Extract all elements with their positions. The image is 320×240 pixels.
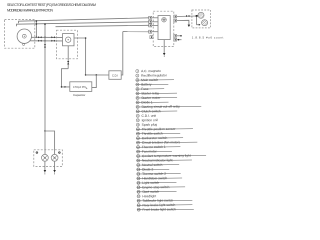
lamp L1 bbox=[42, 154, 49, 161]
magneto output wire M2 bbox=[30, 40, 62, 42]
wire V1 vertical link W1 to magneto output bbox=[36, 20, 38, 38]
legend item 14: Throttle position sensor (crossed out) bbox=[136, 127, 193, 132]
lamp L2 bbox=[51, 154, 58, 161]
ignition coil secondary winding bbox=[202, 20, 208, 26]
legend item 27: Engine stop switch (crossed out) bbox=[137, 185, 185, 190]
headlight body bbox=[158, 16, 170, 40]
pin 8 terminal lower right bbox=[174, 34, 182, 37]
legend item 32: Front brake light switch (crossed out) bbox=[137, 207, 194, 212]
svg-text:1.8.8.5 #o6 count: 1.8.8.5 #o6 count bbox=[192, 36, 224, 40]
legend item 9: Starting circuit cut-off relay (crossed out) bbox=[136, 104, 201, 109]
legend item 2: Rectifier/regulator bbox=[136, 73, 168, 77]
headlight bulb symbol bbox=[162, 17, 167, 22]
legend item 8: Diode 1 (crossed out) bbox=[136, 100, 169, 104]
wire headlight pin6 to ignition coil bbox=[177, 15, 197, 17]
rectifier/regulator U2 dashed enclosure bbox=[57, 30, 78, 59]
legend item 12: Ignition coil bbox=[136, 118, 158, 122]
wire W2 (magneto to CDI pin 2) bbox=[17, 22, 149, 26]
pin 7 terminal right second bbox=[174, 19, 177, 22]
connector pair on regulator bottom wire bbox=[67, 61, 69, 64]
A.C. magneto generator coil symbol bbox=[17, 29, 31, 43]
legend item 4: Battery (crossed out) bbox=[136, 82, 169, 86]
parts legend list bbox=[135, 68, 206, 211]
svg-text:MODIFIED from WRANGLER TRACTIO: MODIFIED from WRANGLER TRACTION bbox=[7, 8, 54, 12]
mounting pin right bbox=[58, 151, 60, 153]
wire capacitor positive branch bbox=[90, 75, 96, 88]
legend item 15: Throttle switch (crossed out) bbox=[136, 131, 180, 135]
A.C. magneto U1 dashed enclosure bbox=[5, 20, 35, 49]
connector pair on wire V2 bbox=[44, 44, 46, 47]
legend item 31: Rear brake light switch (crossed out) bbox=[137, 203, 193, 208]
legend item 1: A.C. magneto bbox=[136, 69, 161, 73]
legend item 13: Spark plug bbox=[136, 123, 157, 127]
legend item 26: Light switch (crossed out) bbox=[137, 181, 177, 185]
coil input junction node bbox=[196, 15, 198, 17]
pin 4 terminal bbox=[149, 30, 158, 33]
legend item 23: Diode 2 (crossed out) bbox=[136, 167, 169, 171]
pin 9 terminal lower right second bbox=[174, 38, 182, 41]
wire W1 (magneto to CDI pin 1) bbox=[19, 18, 149, 23]
svg-text:4700µF 35V: 4700µF 35V bbox=[73, 86, 86, 89]
wire to capacitor negative side bbox=[61, 69, 70, 88]
connector pair on M1 bbox=[38, 36, 55, 38]
headlight/meter lamp unit dashed enclosure bbox=[34, 150, 63, 167]
legend item 25: Handlebar switch (crossed out) bbox=[137, 176, 183, 180]
pin 1 terminal bbox=[149, 16, 158, 19]
legend item 29: Headlight bbox=[137, 194, 156, 198]
wire node to C.D.I. unit box bbox=[86, 74, 109, 76]
ignition coil T1 dashed enclosure bbox=[192, 10, 211, 28]
wire W4 (CDI box to pin 4) bbox=[123, 31, 149, 33]
rectifier/regulator body bbox=[63, 34, 75, 46]
legend item 22: Neutral switch (crossed out) bbox=[136, 163, 179, 167]
spark plug lead and gap bbox=[197, 17, 201, 26]
legend item 5: Fuse (crossed out) bbox=[136, 87, 165, 91]
legend item 11: C.D.I. unit bbox=[136, 114, 156, 118]
legend item 10: Clutch switch (crossed out) bbox=[136, 109, 177, 113]
pin 2 terminal bbox=[149, 20, 158, 23]
legend item 19: Fan motor (crossed out) bbox=[136, 149, 172, 153]
legend item 21: Neutral indicator light (crossed out) bbox=[136, 158, 192, 163]
headlight ground wire with arrow bbox=[163, 40, 166, 57]
wire CDI box to W4 riser bbox=[121, 32, 123, 75]
capacitor C1 body bbox=[70, 82, 92, 92]
svg-text:SELECTOR-LIGHTEST REST (PC) EM: SELECTOR-LIGHTEST REST (PC) EM GREIGE/SC… bbox=[7, 3, 96, 7]
pin 6 terminal right top bbox=[174, 15, 177, 18]
legend item 6: Starter relay (crossed out) bbox=[136, 91, 177, 95]
legend item 3: Main switch (crossed out) bbox=[136, 78, 174, 82]
ignition coil primary winding bbox=[198, 12, 204, 18]
wire from regulator right to CDI feed node bbox=[74, 37, 86, 75]
mounting pin left bbox=[36, 151, 38, 153]
legend item 17: Circuit breaker (fan motor) (crossed out) bbox=[136, 140, 197, 145]
lamp ground wire right with arrow bbox=[53, 161, 56, 174]
lamp ground wire left with arrow bbox=[44, 161, 47, 174]
legend item 28: Start switch (crossed out) bbox=[137, 189, 177, 193]
svg-text:+: + bbox=[86, 87, 88, 91]
legend item 16: Carburetor switch (crossed out) bbox=[136, 136, 183, 140]
lamp feed wire branch bbox=[45, 131, 55, 154]
wire regulator bottom output bbox=[67, 46, 69, 69]
magneto output wire M1 bbox=[31, 36, 62, 38]
C.D.I. unit U3 box bbox=[109, 71, 121, 80]
headlight U4 dashed enclosure bbox=[153, 11, 174, 46]
wire W3 (regulator to CDI pin 3) bbox=[56, 25, 149, 26]
legend item 20: Coolant temperature warning light (crossed out) bbox=[136, 153, 206, 158]
connector pair on M2 bbox=[38, 40, 55, 42]
svg-text:Capacitor: Capacitor bbox=[73, 93, 85, 97]
lamp feed wire left bbox=[44, 131, 46, 154]
legend item 7: Starter motor (crossed out) bbox=[136, 96, 177, 100]
svg-text:C.D.I: C.D.I bbox=[112, 73, 118, 77]
pin 5 terminal lower left bbox=[150, 36, 153, 39]
label 1 marker under magneto bbox=[23, 43, 25, 45]
pin 3 terminal bbox=[149, 24, 158, 27]
legend item 18: Thermo switch 1 (crossed out) bbox=[136, 145, 180, 149]
legend item 30: Tail/brake light switch (crossed out) bbox=[137, 198, 193, 203]
wire headlight pin7 to ground arrow bbox=[177, 20, 191, 27]
legend item 24: Thermo switch 2 (crossed out) bbox=[137, 172, 181, 176]
wire V2 vertical link W2 down to headlight box bbox=[44, 23, 46, 132]
